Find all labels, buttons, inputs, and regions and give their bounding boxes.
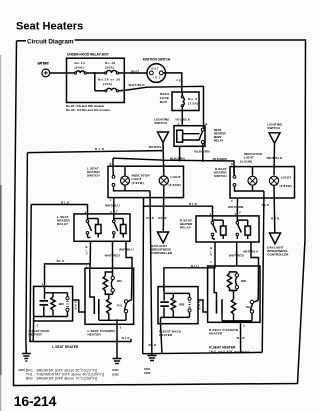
wire main relay coil to BLK/GRN rail [179,146,181,160]
ground G551 G552 right of center [144,356,157,376]
L back heater resistor [51,293,55,317]
wire vertical from BLK tee down to bracket [30,205,31,342]
L cushion breaker BR1 [104,272,122,295]
L seat heater relay [57,210,130,241]
under-hood relay box [66,53,124,112]
fuse No.26 or 36 15A [98,78,120,92]
wire branch down to fuse No.26/36 [94,73,96,91]
junction to lower fuse row [94,72,96,74]
svg-text:BAT: BAT [152,66,159,70]
R cushion thermostat TH1 [246,266,259,321]
wire F WHT/GRN R switch to R relay [228,198,244,216]
L back heater bottom rail and pin 4 [33,317,67,342]
wire WHT/BLU R relay to R cushion heater [243,242,258,266]
svg-text:RELAY: RELAY [57,222,69,226]
wire WHT/BLK fuse26 to main relay [119,83,204,126]
svg-text:G551: G551 [112,368,119,372]
svg-text:G551: G551 [19,368,26,372]
svg-text:BR2: BR2 [179,303,185,307]
svg-text:WHT/BLU: WHT/BLU [119,247,134,251]
legend text [26,369,104,381]
R seat heater relay [180,212,259,242]
svg-text:1: 1 [42,282,44,286]
svg-text:BLU: BLU [57,259,65,263]
svg-text:(0.91W): (0.91W) [132,181,144,185]
L seat heater switch box [87,162,184,203]
wire GRN R back to R cushion [198,300,208,312]
svg-text:G551: G551 [144,367,151,371]
L relay unit 1 contact and coil [86,214,101,238]
svg-text:WHT/BLU: WHT/BLU [105,203,120,207]
svg-text:YEL/BLK: YEL/BLK [175,118,191,122]
wire GRN L back to L cushion [73,300,85,312]
R seat cushion heater box [208,266,260,336]
R cushion breaker BR1 [229,272,247,292]
svg-text:BLK: BLK [262,203,270,207]
svg-text:(50A): (50A) [105,65,114,69]
svg-text:BLK: BLK [189,202,198,206]
svg-text:F: F [231,199,233,203]
L indicator light 0.91W [121,166,151,191]
L cushion bottom rail and pin 3 BLK [99,319,131,341]
R seat back heater box [158,287,198,337]
svg-text:BLK/GRN: BLK/GRN [170,156,185,160]
R cushion heater element [214,266,222,321]
svg-text:B: B [110,162,112,166]
svg-text:RELAY: RELAY [214,139,225,143]
R relay unit 1 contact and coil [211,216,226,239]
svg-text:WHT/BLK: WHT/BLK [129,83,146,87]
ground G551 G552 center [112,342,121,377]
svg-text:16-214: 16-214 [14,393,57,409]
wire WHT/BLU L relay to L cushion heater [119,241,134,268]
svg-text:L.SEAT HEATER: L.SEAT HEATER [52,345,79,349]
wire RED R light to daylight controller [271,186,280,233]
svg-text:SWITCH: SWITCH [214,174,227,178]
svg-text:BLK: BLK [237,336,246,340]
svg-text:LIGHT: LIGHT [171,175,181,179]
svg-text:B: B [206,122,208,126]
svg-text:GRN: GRN [75,300,77,311]
svg-text:BLK: BLK [61,201,70,205]
svg-text:TH1: TH1 [117,303,122,307]
svg-text:BOX: BOX [160,100,168,104]
svg-text:BR2: BR2 [59,302,65,306]
svg-text:(7.5A): (7.5A) [188,101,198,105]
L seat heater bracket [30,339,131,349]
L cushion heater element [90,268,99,320]
L relay unit 2 contact and coil [113,214,127,238]
svg-text:WHT/RED: WHT/RED [229,254,245,258]
L back heater element [40,286,49,316]
svg-text:G552: G552 [144,371,151,375]
svg-text:RELAY: RELAY [180,225,192,229]
wire battery to under-hood relay box [50,72,74,74]
R back heater bottom rail and pin [161,317,190,353]
L cushion thermostat TH1 [117,268,132,320]
svg-text:RED/BLK: RED/BLK [267,156,283,160]
wire YEL/BLK dash fuse to main relay [175,92,191,126]
svg-text:SWITCH: SWITCH [87,174,100,178]
fuse No.9 7.5A [181,96,198,107]
L switch contacts [112,166,150,191]
svg-text:CONTROLLER: CONTROLLER [151,251,173,255]
wire BLU L relay to L back heater [42,241,92,286]
svg-text:IGNITION SWITCH: IGNITION SWITCH [143,57,171,61]
wire BLK to L relay [31,201,87,214]
svg-text:No.36 : KF,KG and KX models: No.36 : KF,KG and KX models [66,108,110,112]
svg-text:RED/BLK: RED/BLK [149,145,165,149]
svg-text:HEATER: HEATER [29,333,43,337]
svg-text:F: F [116,210,118,214]
svg-text:Seat Heaters: Seat Heaters [16,21,83,33]
svg-text:BLU: BLU [191,264,199,268]
battery B1 [38,62,50,77]
svg-text:BR2 : BREAKER [OFF above 70°C(: BR2 : BREAKER [OFF above 70°C(158°F)] [26,376,97,380]
svg-text:IG2: IG2 [153,76,160,80]
svg-text:(65A): (65A) [75,65,84,69]
fuse No.18 50A [105,61,119,74]
fuse No.14 65A [74,61,86,74]
R cushion resistor (parallel with BR1) [227,272,236,291]
svg-text:BR1: BR1 [241,279,247,283]
svg-text:SWITCH: SWITCH [154,121,167,125]
lighting switch L [149,118,170,176]
R cushion bottom rail and pin 3 BLK [222,320,252,353]
svg-text:BATTERY: BATTERY [38,62,50,66]
R switch contacts [233,167,264,191]
wire BLU R relay to R back heater [164,242,216,291]
L light 0.84W [159,175,181,187]
ignition switch [143,57,171,82]
wire WHT fuse18 to ignition switch [119,69,148,73]
dash fuse box [160,92,199,111]
svg-text:BR1: BR1 [117,279,123,283]
R back heater breaker BR2 [179,293,191,317]
svg-text:(0.84W): (0.84W) [280,184,292,188]
wire left vertical to ground G551 [26,153,28,342]
seat heater main relay [174,122,226,147]
svg-text:G552: G552 [112,372,119,376]
svg-text:WHT/GRN: WHT/GRN [228,205,244,209]
svg-text:UNDER-HOOD RELAY BOX: UNDER-HOOD RELAY BOX [67,53,109,57]
L seat cushion heater box [85,268,134,336]
circuit diagram frame [14,40,306,386]
daylight brightness controller R [267,233,289,257]
svg-text:RED: RED [158,216,167,220]
L back heater breaker BR2 [59,293,69,317]
R seat heater bracket label [209,345,249,353]
R seat heater switch box [214,162,295,203]
R cushion resistor 2 [230,291,236,321]
scan edge artifact [0,55,2,411]
svg-text:BLU: BLU [86,245,88,256]
daylight brightness controller L [151,232,173,255]
svg-text:SWITCH: SWITCH [267,126,280,130]
svg-text:A: A [178,122,180,126]
wire YEL ignition to dash fuse box [163,73,184,92]
svg-text:(15A): (15A) [103,82,112,86]
R relay unit 2 contact and coil [236,216,251,239]
L cushion resistor (parallel with BR1) [103,272,112,294]
svg-text:BLK: BLK [146,216,154,220]
wire main relay switch to BLK/GRN rail [202,146,204,161]
svg-text:3: 3 [243,324,245,328]
svg-text:BLK: BLK [149,343,157,347]
BLK/GRN rail left segment [113,156,234,174]
svg-text:Circuit Diagram: Circuit Diagram [27,39,74,46]
R indicator light 0.91W [240,152,263,191]
svg-text:CONTROLLER: CONTROLLER [267,253,289,257]
svg-text:WHT/RED: WHT/RED [105,254,121,258]
svg-text:(0.84W): (0.84W) [169,183,181,187]
svg-text:YEL: YEL [176,78,184,82]
svg-text:BLU: BLU [210,246,212,257]
svg-text:(0.91W): (0.91W) [240,159,252,163]
svg-text:HEATER: HEATER [209,332,223,336]
svg-text:BLK/GRN: BLK/GRN [213,157,228,161]
svg-text:LIGHT: LIGHT [281,175,291,179]
R back heater element [160,287,169,318]
svg-text:BLK: BLK [95,147,105,151]
ground G551 far left [19,342,31,373]
svg-text:GRN: GRN [199,300,201,311]
svg-text:HEATER: HEATER [88,333,102,337]
L cushion resistor 2 [105,294,111,320]
svg-text:WHT/BLU: WHT/BLU [243,250,258,254]
R back heater top rail [164,292,190,294]
svg-text:3: 3 [120,326,122,330]
wire BLK branch to R relay [143,198,213,354]
wire RED L light to daylight controller [158,186,167,232]
R ground line [143,352,263,356]
wire F WHT/BLU L switch to L relay [105,198,120,214]
svg-text:F: F [239,210,241,214]
svg-text:F: F [110,199,112,203]
wire WHT/RED R relay to R cushion heater [229,242,245,266]
svg-text:BLK: BLK [122,336,131,340]
R back heater resistor [171,293,175,317]
lighting switch R [267,123,283,176]
svg-text:B: B [231,162,233,166]
wire BLK R switch to ground line [262,191,270,352]
svg-text:BLK/GRN: BLK/GRN [195,149,211,153]
wire WHT/RED L relay to L cushion heater [105,241,121,272]
svg-text:4: 4 [37,324,39,328]
R light 0.84W [269,175,291,188]
wire BLK L switch to ground [146,191,154,356]
svg-text:RED: RED [271,217,280,221]
svg-text:1: 1 [210,260,212,264]
svg-text:(KG and KW models): (KG and KW models) [209,350,249,354]
wire fuse14 to fuse18 [86,72,104,74]
L seat back heater box [29,286,73,336]
svg-text:WHT: WHT [131,69,139,73]
L back heater top rail [45,292,68,294]
wire BLK left long horizontal to lighting stem [27,147,162,152]
